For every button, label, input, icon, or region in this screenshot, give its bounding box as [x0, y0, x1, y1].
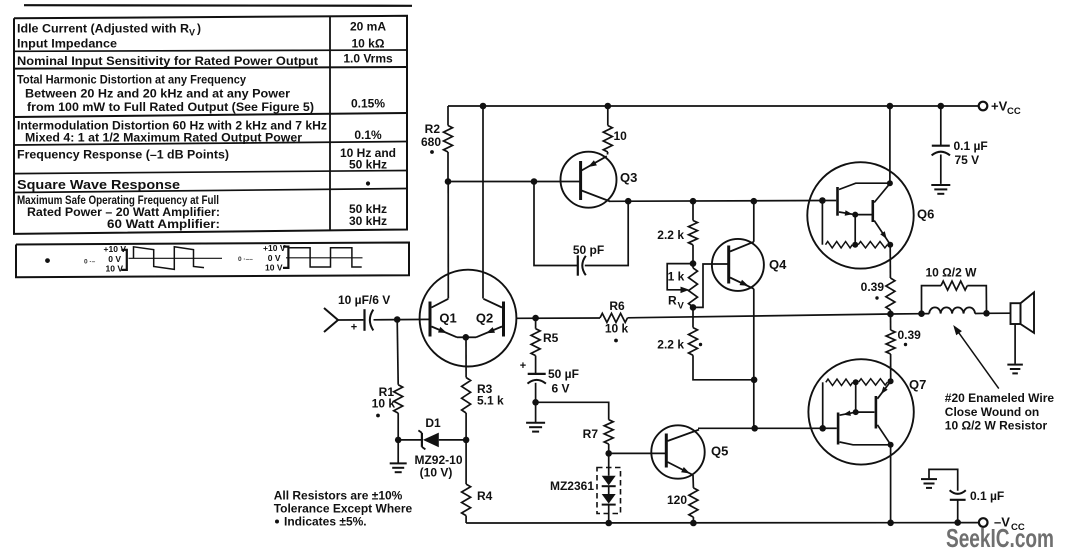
resistor 2.2k upper	[692, 201, 694, 220]
wire R4 to bottom rail	[465, 516, 467, 523]
svg-text:Q2: Q2	[476, 311, 493, 326]
node Q7 center top	[853, 379, 859, 385]
darlington Q7 package circle	[808, 359, 913, 464]
wire Q4 collector column	[753, 201, 755, 242]
Q6 internal emitter resistors	[821, 201, 823, 245]
node rail 10-ohm	[605, 103, 612, 110]
wiper loop of RV	[667, 264, 693, 290]
svg-text:10 µF/6 V: 10 µF/6 V	[338, 293, 390, 307]
wire Q7 collector to bottom rail	[890, 445, 892, 523]
node Q7 bottom collector junction	[888, 442, 894, 448]
wire Q6 collector to rail	[889, 106, 891, 183]
svg-text:1 k: 1 k	[668, 270, 685, 284]
spec table column divider	[329, 16, 331, 230]
resistor R1 10k	[397, 320, 398, 385]
wire Q4 emitter column	[753, 289, 755, 429]
svg-text:CC: CC	[1007, 106, 1021, 117]
square waveform	[289, 248, 362, 267]
ground below 50uF	[535, 402, 537, 422]
resistor R5	[535, 318, 537, 329]
svg-text:All Resistors are ±10%: All Resistors are ±10%	[274, 489, 403, 503]
node inductor right	[983, 310, 990, 317]
resistor R6 10k	[600, 313, 628, 322]
ground below top bypass cap	[931, 184, 950, 186]
capacitor 0.1uF 75V top bypass	[940, 106, 942, 146]
wire Q3 collector horizontal run	[609, 200, 822, 203]
svg-text:R2: R2	[425, 122, 441, 136]
node lower 2.2k / Q4 emitter	[751, 377, 758, 384]
svg-text:Input Impedance: Input Impedance	[17, 37, 117, 51]
capacitor 50uF 6V	[528, 373, 546, 375]
svg-text:R6: R6	[609, 299, 625, 313]
wire input to coupling cap	[338, 319, 363, 321]
zero axis left waveform	[129, 257, 223, 259]
ground below speaker	[1007, 364, 1023, 366]
svg-text:50 µF: 50 µF	[548, 367, 579, 381]
svg-text:Q3: Q3	[620, 170, 637, 185]
node Q7 emitter1 / base2	[853, 409, 859, 415]
svg-text:0 ·–: 0 ·–	[84, 259, 96, 266]
svg-text:): )	[197, 22, 201, 36]
+Vcc terminal	[979, 102, 988, 111]
svg-text:2.2 k: 2.2 k	[657, 228, 684, 242]
wire node to R4	[465, 440, 467, 484]
svg-text:120: 120	[667, 493, 687, 507]
annotation arrow to inductor	[956, 328, 999, 388]
resistor 0.39 upper	[886, 278, 895, 310]
node Q6 emitter output	[887, 242, 893, 248]
wire 50uF node to R7	[536, 402, 609, 419]
svg-text:D1: D1	[425, 416, 441, 430]
capacitor 10uF/6V input coupling	[363, 309, 365, 331]
node D1 / R3 / R4	[463, 437, 470, 444]
svg-text:from 100 mW to Full Rated Outp: from 100 mW to Full Rated Output (See Fi…	[27, 100, 314, 114]
svg-text:Indicates ±5%.: Indicates ±5%.	[284, 515, 367, 529]
svg-text:0.15%: 0.15%	[351, 97, 385, 111]
svg-text:10 Ω/2 W: 10 Ω/2 W	[926, 266, 978, 280]
node Q6 top collector junction	[887, 180, 893, 186]
svg-text:Q7: Q7	[909, 377, 926, 392]
Q6 internal transistor 2	[855, 214, 871, 216]
-Vcc terminal	[979, 518, 988, 527]
resistor R3 5.1k	[462, 378, 471, 414]
resistor R2	[444, 126, 453, 153]
svg-text:(10 V): (10 V)	[420, 466, 453, 480]
wire RV bottom crossing main wire to lower 2.2k	[692, 307, 694, 327]
inductor #20 enameled wire coil	[922, 313, 930, 315]
node RV bottom	[690, 304, 697, 311]
svg-text:R4: R4	[477, 489, 493, 503]
svg-text:+: +	[520, 360, 526, 372]
wire R2 column from rail	[447, 106, 449, 126]
wire R3 to node	[465, 413, 467, 440]
svg-text:V: V	[678, 301, 685, 312]
svg-text:Frequency Response (–1 dB Poin: Frequency Response (–1 dB Points)	[17, 148, 229, 162]
svg-text:Nominal Input Sensitivity for: Nominal Input Sensitivity for Rated Powe…	[17, 54, 318, 68]
svg-text:0.1%: 0.1%	[354, 128, 382, 142]
svg-text:Close Wound on: Close Wound on	[945, 405, 1039, 419]
svg-text:+V: +V	[991, 99, 1008, 114]
potentiometer RV 1k	[689, 268, 698, 307]
-Vcc bottom supply rail	[466, 522, 979, 524]
wire speaker to ground	[1014, 324, 1016, 364]
asterisk mark in waveform box	[45, 258, 50, 263]
svg-text:10 k: 10 k	[372, 397, 396, 411]
node rail Q6	[887, 103, 894, 110]
svg-text:10 kΩ: 10 kΩ	[352, 37, 385, 51]
+Vcc top supply rail	[448, 105, 979, 107]
svg-text:V: V	[189, 28, 195, 38]
wire Q3 base horizontal	[448, 181, 581, 183]
wire R6 to output node	[628, 314, 891, 318]
node Q4 collector on collector wire	[751, 198, 758, 205]
svg-text:50 kHz: 50 kHz	[349, 158, 387, 172]
wire Q2 collector column from rail	[482, 106, 484, 299]
Q6 internal transistor 1	[822, 200, 836, 202]
Q7 internal base resistors	[822, 382, 824, 428]
wire 10-ohm resistor column from rail	[607, 106, 609, 126]
node 50pF right leg on collector wire	[625, 198, 632, 205]
transistor Q2	[502, 302, 505, 337]
svg-text:10 V: 10 V	[265, 263, 283, 273]
wire Q6 emitter to 0.39	[889, 245, 891, 278]
wire Q2 base to R5 node	[517, 317, 600, 319]
node Q5 collector / Q4 emitter	[751, 425, 758, 432]
svg-text:+: +	[351, 322, 357, 334]
wire inductor to speaker	[987, 312, 1011, 314]
input terminal arrow	[324, 308, 338, 332]
svg-text:Q6: Q6	[917, 207, 934, 222]
node rail bypass cap	[954, 519, 961, 526]
wire 120 to bottom rail	[692, 517, 694, 523]
node 2.2k / potentiometer junction	[690, 260, 697, 267]
resistor R7	[604, 420, 613, 444]
svg-text:0.39: 0.39	[861, 280, 885, 294]
Q7 internal transistor 2	[856, 411, 875, 413]
resistor R4	[462, 484, 471, 515]
node input / R1	[394, 316, 401, 323]
resistor 120	[689, 488, 698, 517]
spec table row dividers	[14, 50, 407, 51]
svg-text:MZ2361: MZ2361	[550, 479, 594, 493]
node 50uF / R7 link	[532, 399, 539, 406]
node 50pF tap on base wire	[531, 178, 538, 185]
bracket right waveform	[283, 247, 288, 268]
wire 50uF to ground node	[535, 383, 537, 403]
node R1 / D1 / ground	[395, 437, 402, 444]
svg-text:R: R	[668, 294, 677, 308]
svg-text:2.2 k: 2.2 k	[657, 338, 684, 352]
darlington Q6 package circle	[807, 162, 913, 268]
resistor 10 (Q3 emitter)	[603, 126, 612, 153]
capacitor 50 pF loop wires	[534, 182, 578, 266]
transistor Q3	[561, 152, 617, 208]
node rail 120 resistor	[690, 520, 697, 527]
dashed box around MZ2361	[597, 468, 621, 514]
speaker	[1011, 303, 1021, 324]
node Q2 base / R5 / R6	[532, 315, 539, 322]
node Q6 emitter1 / base2	[852, 212, 858, 218]
svg-text:0 ·––: 0 ·––	[238, 256, 253, 263]
capacitor 0.1uF bottom bypass	[957, 500, 959, 523]
node inductor left	[918, 310, 925, 317]
svg-text:50 pF: 50 pF	[573, 243, 604, 257]
wire Q4 base link	[693, 264, 729, 307]
resistor 0.39 lower	[890, 314, 892, 330]
wire cap to Q1 base	[374, 318, 431, 320]
wire bottom bypass cap to ground	[929, 469, 958, 490]
svg-text:Total Harmonic Distortion at a: Total Harmonic Distortion at any Frequen…	[17, 73, 246, 87]
wire 10-ohm to Q3 emitter	[606, 152, 608, 155]
svg-text:SeekIC.com: SeekIC.com	[946, 523, 1054, 553]
transistor Q5	[651, 425, 704, 478]
svg-text:R5: R5	[543, 331, 559, 345]
svg-text:0.1 µF: 0.1 µF	[970, 489, 1004, 503]
node Q7 top emitter junction	[888, 378, 894, 384]
node rail Q7 collector	[887, 520, 894, 527]
node rail Q2 collector	[480, 103, 487, 110]
svg-text:Between 20 Hz and 20 kHz and a: Between 20 Hz and 20 kHz and at any Powe…	[25, 87, 290, 101]
waveform legend box	[16, 243, 409, 278]
node R2 bottom / Q3 base wire	[445, 178, 452, 185]
wire Q5 collector run	[698, 427, 823, 429]
resistor 2.2k lower	[689, 328, 698, 356]
svg-text:+10 V: +10 V	[263, 243, 286, 253]
svg-text:75 V: 75 V	[955, 153, 980, 167]
wire R2 to base node	[447, 152, 449, 182]
top rule line above spec table	[24, 4, 412, 7]
node output	[887, 311, 894, 318]
bias diode string MZ2361	[608, 453, 610, 475]
bracket left waveform	[121, 250, 127, 270]
svg-text:60 Watt Amplifier:: 60 Watt Amplifier:	[107, 217, 220, 231]
dual transistor Q1 Q2 package circle	[420, 270, 517, 367]
wire lower 2.2k to Q4 emitter column	[693, 355, 754, 380]
node 2.2k top on collector wire	[690, 198, 697, 205]
svg-text:20 mA: 20 mA	[350, 20, 386, 34]
svg-text:0.39: 0.39	[898, 328, 922, 342]
svg-text:Idle Current (Adjusted with R: Idle Current (Adjusted with R	[17, 22, 189, 36]
svg-text:Q4: Q4	[769, 257, 787, 272]
wire 0.39 to output node	[889, 310, 891, 314]
svg-text:10 Ω/2 W Resistor: 10 Ω/2 W Resistor	[945, 419, 1048, 433]
wire Q1 collector column	[447, 182, 449, 299]
node rail top bypass cap	[938, 103, 945, 110]
wire 0.39 to Q7	[890, 354, 892, 381]
svg-text:10 V: 10 V	[106, 263, 124, 273]
svg-text:5.1 k: 5.1 k	[477, 394, 504, 408]
wire R1 to D1 node	[397, 413, 399, 440]
transistor Q4	[712, 239, 764, 291]
svg-text:10 k: 10 k	[605, 322, 629, 336]
svg-text:Q1: Q1	[439, 311, 456, 326]
node Q6 center bottom	[852, 242, 858, 248]
spec table outer border	[14, 16, 407, 234]
node Q6 base entry	[819, 197, 826, 204]
transistor Q1	[429, 302, 432, 337]
wire R7 to base node	[608, 444, 610, 453]
svg-text:0 V: 0 V	[108, 254, 121, 264]
node rail MZ2361	[605, 520, 612, 527]
wire Q5 base	[609, 452, 665, 454]
svg-text:Tolerance Except Where: Tolerance Except Where	[274, 502, 413, 516]
svg-text:6 V: 6 V	[552, 382, 570, 396]
svg-text:Q5: Q5	[711, 444, 728, 459]
svg-text:Mixed 4: 1 at 1/2 Maximum Rate: Mixed 4: 1 at 1/2 Maximum Rated Output P…	[25, 131, 302, 145]
node Q7 base entry	[819, 425, 826, 432]
wire R5 to 50uF cap	[535, 356, 537, 373]
svg-text:0.1 µF: 0.1 µF	[954, 139, 988, 153]
svg-text:680: 680	[421, 135, 441, 149]
wire common emitter to R3	[465, 337, 467, 377]
node common emitters Q1 Q2	[463, 334, 470, 341]
zener diode D1 MZ92-10	[398, 439, 421, 441]
svg-text:10: 10	[614, 129, 628, 143]
zero axis right waveform	[286, 257, 363, 259]
ground below R1	[397, 440, 399, 463]
ground for bottom bypass cap	[921, 478, 937, 480]
svg-text:Square Wave Response: Square Wave Response	[17, 177, 180, 192]
wire Q5 emitter to 120 resistor	[692, 475, 694, 488]
svg-text:1.0 Vrms: 1.0 Vrms	[343, 52, 393, 66]
capacitor 50 pF	[577, 255, 579, 275]
tilted square waveform	[134, 247, 205, 270]
svg-text:0 V: 0 V	[268, 253, 281, 263]
wire output node to inductor	[891, 313, 922, 315]
Q7 internal transistor 1	[823, 427, 837, 429]
svg-text:R7: R7	[583, 427, 599, 441]
svg-text:#20 Enameled Wire: #20 Enameled Wire	[945, 391, 1055, 405]
resistor 10 ohm 2W bypass loop	[922, 286, 942, 314]
node R7 / Q5 base / zener string	[605, 450, 612, 457]
svg-text:30 kHz: 30 kHz	[349, 214, 387, 228]
